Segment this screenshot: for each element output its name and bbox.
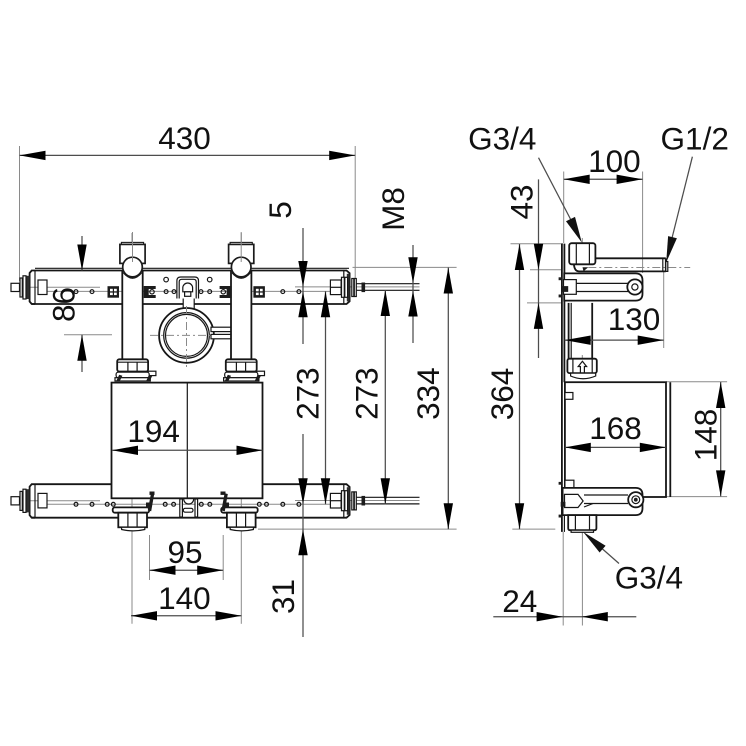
svg-text:G3/4: G3/4 bbox=[468, 121, 536, 157]
svg-text:148: 148 bbox=[688, 409, 724, 462]
svg-text:100: 100 bbox=[588, 143, 641, 179]
svg-text:273: 273 bbox=[349, 367, 385, 420]
svg-text:31: 31 bbox=[265, 579, 301, 614]
svg-text:43: 43 bbox=[504, 184, 540, 219]
svg-text:95: 95 bbox=[167, 534, 202, 570]
svg-text:334: 334 bbox=[410, 367, 446, 420]
svg-text:G3/4: G3/4 bbox=[615, 560, 683, 596]
svg-text:86: 86 bbox=[46, 287, 82, 322]
svg-text:G1/2: G1/2 bbox=[661, 121, 729, 157]
svg-text:430: 430 bbox=[158, 120, 211, 156]
svg-text:364: 364 bbox=[484, 368, 520, 421]
svg-text:168: 168 bbox=[589, 410, 642, 446]
svg-text:140: 140 bbox=[158, 580, 211, 616]
svg-text:M8: M8 bbox=[375, 187, 411, 231]
svg-text:24: 24 bbox=[502, 583, 537, 619]
svg-text:194: 194 bbox=[127, 413, 180, 449]
svg-text:5: 5 bbox=[262, 201, 298, 219]
svg-text:130: 130 bbox=[608, 301, 661, 337]
svg-text:273: 273 bbox=[290, 367, 326, 420]
